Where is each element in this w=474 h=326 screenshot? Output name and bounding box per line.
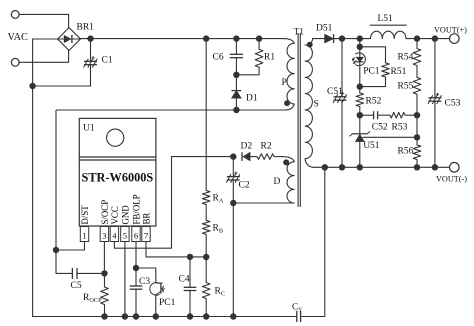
wire bottom rail CY to secondary return — [301, 167, 325, 316]
pin 3 box — [100, 227, 108, 242]
svg-text:R2: R2 — [261, 142, 272, 152]
wire pin6 FB/OLP down — [135, 242, 137, 269]
junction: C51 on Vout- rail — [339, 164, 345, 170]
diode D2 — [243, 152, 250, 161]
wire C1 bottom to left rail — [33, 65, 91, 86]
junction: C1 return on left rail — [29, 83, 35, 89]
terminal: VAC top input — [11, 11, 19, 19]
transformer T1 primary P winding — [283, 39, 294, 44]
junction: C2 line on bottom rail — [230, 313, 236, 319]
svg-text:D1: D1 — [246, 94, 258, 104]
U1 mounting hole — [107, 129, 124, 146]
wire R56 top lead — [416, 115, 418, 145]
diode D51 — [325, 34, 334, 43]
junction: R56 on Vout- rail — [414, 164, 420, 170]
junction: ref / R56 node — [414, 134, 420, 140]
wire from bottom VAC terminal to bridge bottom — [20, 50, 69, 62]
wire bridge right vertex along top rail to primary — [81, 38, 284, 40]
pin 1 box — [80, 227, 88, 242]
wire pin5 GND to bottom rail — [124, 242, 126, 317]
junction: C6/R1/D1 node — [233, 72, 239, 78]
pin 6 box — [132, 227, 140, 242]
capacitor C2 (electrolytic) — [227, 176, 240, 178]
junction: VCC / D2 anode / C2 — [230, 153, 236, 159]
svg-text:4: 4 — [112, 231, 116, 240]
svg-text:VCC: VCC — [110, 206, 120, 224]
svg-text:R56: R56 — [398, 147, 414, 157]
wire C4 top lead — [189, 257, 191, 287]
polarity dot of P winding — [284, 100, 290, 106]
wire R56 bottom lead — [416, 160, 418, 168]
svg-text:BR1: BR1 — [77, 23, 95, 33]
wire PC1 emitter to bottom rail — [155, 295, 157, 317]
resistor RC — [202, 283, 210, 299]
capacitor CY — [296, 311, 298, 322]
svg-text:U51: U51 — [363, 141, 380, 151]
wire pin1 D/ST to drain node — [56, 242, 85, 251]
wire C51 bottom lead — [341, 100, 343, 167]
resistor R54 — [413, 49, 421, 66]
wire drain vertical — [55, 110, 57, 250]
junction: ROCP on bottom rail — [101, 313, 107, 319]
wire D51 cathode along rail to L51 — [334, 38, 371, 40]
svg-text:1: 1 — [82, 231, 86, 240]
svg-text:C53: C53 — [445, 99, 461, 109]
svg-text:R53: R53 — [392, 123, 408, 133]
svg-text:D51: D51 — [316, 24, 333, 34]
junction: R54 top — [414, 35, 420, 41]
junction: PC1 LED cathode / R51 bottom — [357, 83, 363, 89]
terminal: VOUT(+) — [450, 34, 460, 44]
junction: R53 / R55 node — [414, 112, 420, 118]
svg-text:6: 6 — [134, 231, 138, 240]
wire from top VAC terminal to bridge top — [20, 14, 69, 28]
svg-text:T1: T1 — [294, 28, 305, 38]
resistor RB — [202, 220, 210, 234]
wire bottom ground rail (primary side) — [33, 316, 297, 318]
wire R55 bottom lead — [416, 94, 418, 115]
wire RB bottom to BR node — [205, 234, 207, 257]
junction: bridge output / C1 — [87, 35, 93, 41]
wire D1 cathode lead — [235, 75, 237, 90]
wire R1 top lead — [258, 39, 260, 50]
svg-text:R54: R54 — [398, 53, 414, 63]
wire C2 top lead — [232, 157, 234, 177]
junction: C2 bottom / D winding return — [230, 200, 236, 206]
svg-text:R55: R55 — [398, 82, 414, 92]
svg-text:C6: C6 — [213, 53, 224, 63]
transistor PC1 (photocoupler output) — [150, 283, 159, 296]
pin 5 box — [121, 227, 129, 242]
pin 4 box — [110, 227, 118, 242]
resistor ROCP — [101, 287, 109, 304]
junction: U51 on Vout- rail — [357, 164, 363, 170]
junction: S/OCP / C5 / ROCP — [101, 270, 107, 276]
wire rail to PC1 LED node — [359, 39, 361, 47]
wire VCC routing pin4 to D2 line — [114, 157, 233, 249]
wire left rail down to bottom rail — [32, 39, 34, 317]
wire ROCP bottom lead — [104, 305, 106, 317]
junction: C51 top — [339, 35, 345, 41]
svg-text:PC1: PC1 — [159, 298, 176, 308]
svg-text:C1: C1 — [102, 56, 113, 66]
junction: D1 on drain line — [233, 107, 239, 113]
polarity dot of D winding — [283, 159, 289, 165]
resistor R1 — [255, 49, 263, 67]
resistor RA — [202, 191, 210, 205]
wire U51 ref line — [362, 136, 417, 138]
capacitor C1 (electrolytic) — [84, 60, 97, 62]
junction: C53 top — [432, 35, 438, 41]
inductor L51 — [370, 24, 407, 26]
junction: RB/RC/BR node — [203, 254, 209, 260]
wire R54 to R55 — [416, 66, 418, 78]
resistor R53 — [390, 112, 405, 118]
wire C4 bottom lead — [189, 291, 191, 317]
junction: C53 on Vout- rail — [432, 164, 438, 170]
wire ROCP top lead — [104, 273, 106, 287]
wire C5 left lead — [56, 250, 72, 273]
wire C6 top lead — [235, 39, 237, 55]
wire R2 to D winding — [275, 156, 282, 158]
junction: top rail / RA — [203, 35, 209, 41]
svg-text:S/OCP: S/OCP — [100, 200, 110, 225]
svg-text:5: 5 — [123, 231, 127, 240]
wire C52 left lead — [360, 114, 374, 116]
junction: R52 / C52 / U51 node — [357, 112, 363, 118]
capacitor C3 — [130, 285, 143, 287]
svg-text:GND: GND — [121, 205, 131, 225]
transformer T1 secondary S winding — [305, 39, 325, 45]
wire C3 top lead — [135, 268, 137, 286]
terminal: VOUT(-) — [450, 163, 460, 173]
transformer T1 auxiliary D winding — [281, 157, 294, 162]
wire bridge left vertex to left rail — [33, 38, 58, 40]
wire C52 to R53 — [378, 114, 390, 116]
resistor R51 — [382, 63, 390, 77]
svg-text:VOUT(-): VOUT(-) — [436, 175, 467, 184]
wire U51 cathode lead — [359, 115, 361, 134]
wire C51 top lead — [341, 39, 343, 97]
wire C53 bottom lead — [434, 101, 436, 167]
wire C53 top lead — [434, 39, 436, 98]
wire RC top lead — [205, 257, 207, 283]
wire C3 bottom lead — [135, 289, 137, 316]
wire R54 top lead — [416, 39, 418, 49]
capacitor C4 — [184, 286, 197, 288]
resistor R52 — [356, 93, 364, 107]
wire RA to RB — [205, 205, 207, 221]
svg-text:7: 7 — [144, 231, 148, 240]
svg-text:U1: U1 — [83, 124, 95, 134]
diode PC1 (photocoupler LED side) — [356, 53, 366, 66]
junction: C3 on bottom rail — [133, 313, 139, 319]
wire L51 to Vout+ terminal — [406, 38, 450, 40]
wire PC1 collector — [136, 268, 156, 283]
junction: RC on bottom rail — [203, 313, 209, 319]
wire R53 right lead — [405, 114, 417, 116]
wire R1 bottom to C6 node — [236, 67, 259, 75]
svg-text:R51: R51 — [391, 67, 407, 77]
wire U51 anode to Vout- rail — [359, 142, 361, 168]
capacitor C5 — [71, 268, 73, 279]
junction: PC1 branch on rail — [357, 35, 363, 41]
junction: GND on bottom rail — [122, 313, 128, 319]
wire RC bottom lead — [205, 299, 207, 317]
junction: top rail / C6 — [233, 35, 239, 41]
resistor R55 — [413, 77, 421, 94]
junction: C4 top — [187, 254, 193, 260]
resistor R2 — [257, 154, 274, 160]
transistor U51 (shunt regulator) — [352, 133, 367, 135]
svg-text:VAC: VAC — [8, 32, 29, 43]
wire pin7 BR to divider — [146, 242, 206, 257]
svg-text:D: D — [274, 177, 281, 187]
junction: PC1/R51 top node — [357, 44, 363, 50]
svg-text:C4: C4 — [179, 275, 190, 285]
wire C6 bottom lead — [235, 58, 237, 75]
pin 7 box — [142, 227, 150, 242]
wire pin3 S/OCP down — [103, 242, 105, 274]
wire Vout- rail — [313, 166, 450, 168]
wire C1 top lead — [90, 39, 92, 62]
wire RA top lead — [205, 39, 207, 191]
bridge rectifier BR1 — [58, 28, 81, 51]
svg-text:STR-W6000S: STR-W6000S — [82, 171, 154, 185]
wire R52 top lead — [359, 87, 361, 93]
capacitor C6 — [230, 53, 243, 55]
wire D1 anode lead — [235, 98, 237, 110]
polarity dot of S winding — [307, 42, 313, 48]
wire R51 bottom branch — [360, 77, 386, 87]
wire R52 bottom lead — [359, 107, 361, 116]
capacitor C52 — [373, 111, 375, 119]
transformer T1 core — [297, 33, 299, 207]
wire R51 top branch — [360, 47, 386, 63]
junction: secondary return on Vout- rail — [322, 164, 328, 170]
capacitor C53 (electrolytic) — [428, 97, 441, 99]
svg-text:C2: C2 — [239, 181, 250, 191]
svg-text:R1: R1 — [264, 53, 275, 63]
junction: C4 on bottom rail — [187, 313, 193, 319]
junction: FB / C3 / PC1 collector — [133, 265, 139, 271]
svg-text:FB/OLP: FB/OLP — [132, 194, 142, 224]
terminal: VAC bottom input — [11, 58, 19, 66]
svg-text:P: P — [282, 78, 287, 88]
svg-text:PC1: PC1 — [363, 67, 380, 77]
svg-text:BR: BR — [142, 213, 152, 225]
svg-text:C5: C5 — [71, 281, 82, 291]
wire D2 anode to R2 — [250, 156, 257, 158]
svg-text:D/ST: D/ST — [80, 205, 90, 225]
svg-text:3: 3 — [102, 231, 106, 240]
svg-text:D2: D2 — [241, 142, 253, 152]
wire drain line from primary to U1 drain corner — [56, 109, 285, 111]
wire C2 bottom lead to ground rail — [232, 180, 234, 317]
capacitor C51 (electrolytic) — [334, 96, 347, 98]
svg-text:S: S — [314, 100, 319, 110]
svg-text:R52: R52 — [366, 97, 382, 107]
wire C5 right lead — [77, 272, 105, 274]
svg-text:L51: L51 — [378, 14, 394, 24]
resistor R56 — [413, 145, 421, 160]
diode D1 — [232, 91, 242, 99]
junction: PC1 emitter on bottom rail — [153, 313, 159, 319]
svg-text:VOUT(+): VOUT(+) — [434, 26, 467, 35]
junction: top rail / R1 — [256, 35, 262, 41]
junction: drain / pin1 / C5 — [53, 247, 59, 253]
svg-text:C3: C3 — [139, 277, 150, 287]
svg-text:C52: C52 — [372, 123, 388, 133]
op-amp U1 package outline (STR-W6000S) — [79, 118, 156, 226]
svg-text:C51: C51 — [327, 87, 343, 97]
